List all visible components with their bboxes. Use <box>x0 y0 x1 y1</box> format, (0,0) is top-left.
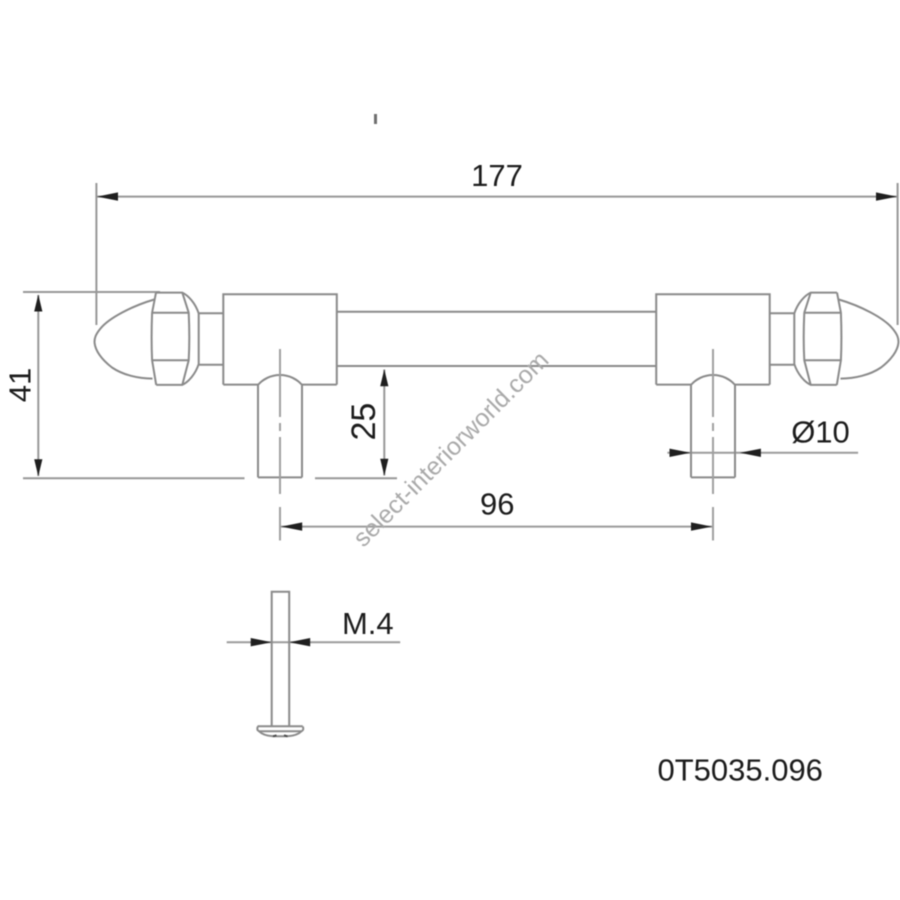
dimension 41 arrow up <box>34 295 42 312</box>
dimension Ø10 arrow left <box>670 449 691 457</box>
cap nut facet line upper <box>152 312 189 314</box>
dimension 41 line <box>37 295 39 476</box>
cap nut left facet curve <box>152 293 157 385</box>
dimension 41 extension line top <box>23 291 160 293</box>
handle body <box>95 293 899 478</box>
dimension M.4 arrow left <box>251 638 272 646</box>
dimension 25 arrow down <box>380 459 388 476</box>
dimension 177 extension line right <box>897 183 899 325</box>
dimension M.4 arrow right <box>289 638 310 646</box>
dimension 25 extension line bottom <box>315 477 397 479</box>
dimension 177 arrow left <box>97 192 118 200</box>
post centerline right <box>712 349 714 541</box>
dimension 25 arrow up <box>380 369 388 386</box>
svg-text:25: 25 <box>345 403 383 441</box>
mount block <box>223 294 336 384</box>
screw shaft <box>272 592 290 726</box>
neck bottom line <box>199 364 224 366</box>
dimension 177 arrow right <box>876 192 897 200</box>
cap nut outline <box>156 293 199 385</box>
dimension M.4 line <box>227 641 401 643</box>
svg-text:41: 41 <box>3 368 38 402</box>
post centerline left <box>280 349 713 541</box>
mount block bottom edges <box>223 384 336 386</box>
svg-text:0T5035.096: 0T5035.096 <box>657 752 822 787</box>
svg-text:96: 96 <box>480 487 514 522</box>
stray tick mark <box>374 114 377 124</box>
dimension Ø10 arrow right <box>740 449 761 457</box>
dimension 41 arrow down <box>34 459 42 476</box>
dimension Ø10 line <box>667 452 858 454</box>
bar bottom line <box>337 365 656 367</box>
dimension 177 line <box>96 196 897 198</box>
svg-text:177: 177 <box>471 158 523 193</box>
svg-text:M.4: M.4 <box>342 606 394 641</box>
bar top line <box>337 311 656 313</box>
dimension 96 line <box>281 526 712 528</box>
svg-text:Ø10: Ø10 <box>791 415 850 450</box>
dimension 41 extension line bottom <box>23 477 245 479</box>
post <box>258 385 302 478</box>
screw head <box>257 726 303 736</box>
cap nut facet line lower <box>152 359 189 361</box>
right end cap (mirrored) <box>656 293 898 478</box>
dimension 25 line <box>383 370 385 476</box>
end cap dome <box>95 300 155 379</box>
dimension 177 extension line left <box>95 183 97 325</box>
neck top line <box>199 312 224 314</box>
dimension 96 arrow left <box>281 522 302 530</box>
post shoulder arc <box>258 375 302 385</box>
dimension 96 arrow right <box>691 522 712 530</box>
cap nut right facet curve <box>182 293 189 385</box>
